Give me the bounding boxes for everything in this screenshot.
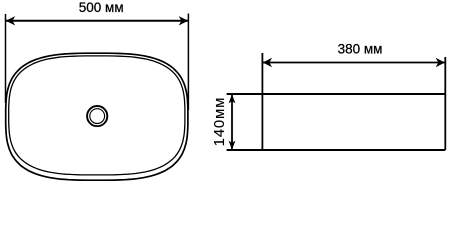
side view right edge with 380mm right extension line	[444, 57, 446, 150]
dimension line 380mm	[262, 62, 445, 64]
arrowhead left 500mm	[6, 16, 15, 25]
svg-text:380 мм: 380 мм	[338, 42, 383, 57]
side view bottom edge with 140mm bottom extension line	[227, 149, 446, 151]
extension line right of 500mm dimension	[187, 14, 189, 111]
drain outer circle	[87, 106, 107, 126]
svg-text:140мм: 140мм	[211, 97, 228, 147]
arrowhead top 140mm	[229, 94, 236, 103]
basin inner rim (top view)	[9, 56, 185, 175]
arrowhead left 380mm	[263, 58, 272, 67]
arrowhead bottom 140mm	[229, 141, 236, 150]
dimension line 500mm	[6, 20, 189, 22]
dimension line 140mm	[231, 94, 233, 150]
extension line left of 500mm dimension	[5, 14, 7, 103]
svg-text:500 мм: 500 мм	[79, 0, 124, 15]
arrowhead right 500mm	[179, 16, 188, 25]
arrowhead right 380mm	[436, 58, 445, 67]
drain inner circle	[90, 109, 105, 124]
side view top edge with 140mm top extension line	[227, 93, 446, 95]
basin outer rim (top view)	[6, 53, 188, 180]
side view left edge with 380mm left extension line	[261, 53, 263, 150]
